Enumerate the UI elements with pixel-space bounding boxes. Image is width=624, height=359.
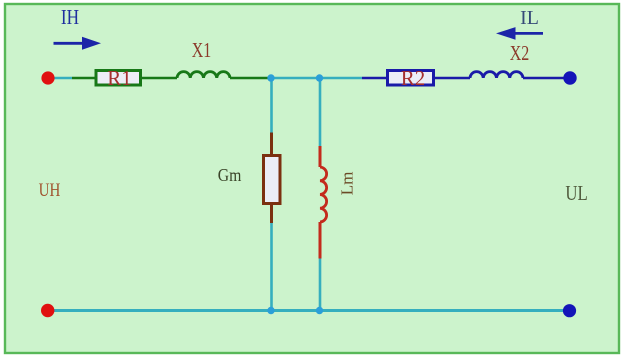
svg-text:IH: IH (61, 7, 79, 30)
svg-text:IL: IL (520, 7, 539, 29)
svg-text:UH: UH (39, 179, 61, 200)
svg-text:X2: X2 (510, 42, 530, 66)
svg-text:Lm: Lm (338, 172, 357, 196)
svg-text:R1: R1 (107, 66, 132, 90)
svg-text:Gm: Gm (218, 165, 242, 185)
svg-text:R2: R2 (401, 66, 426, 90)
svg-text:X1: X1 (192, 39, 212, 63)
svg-text:UL: UL (565, 182, 587, 205)
